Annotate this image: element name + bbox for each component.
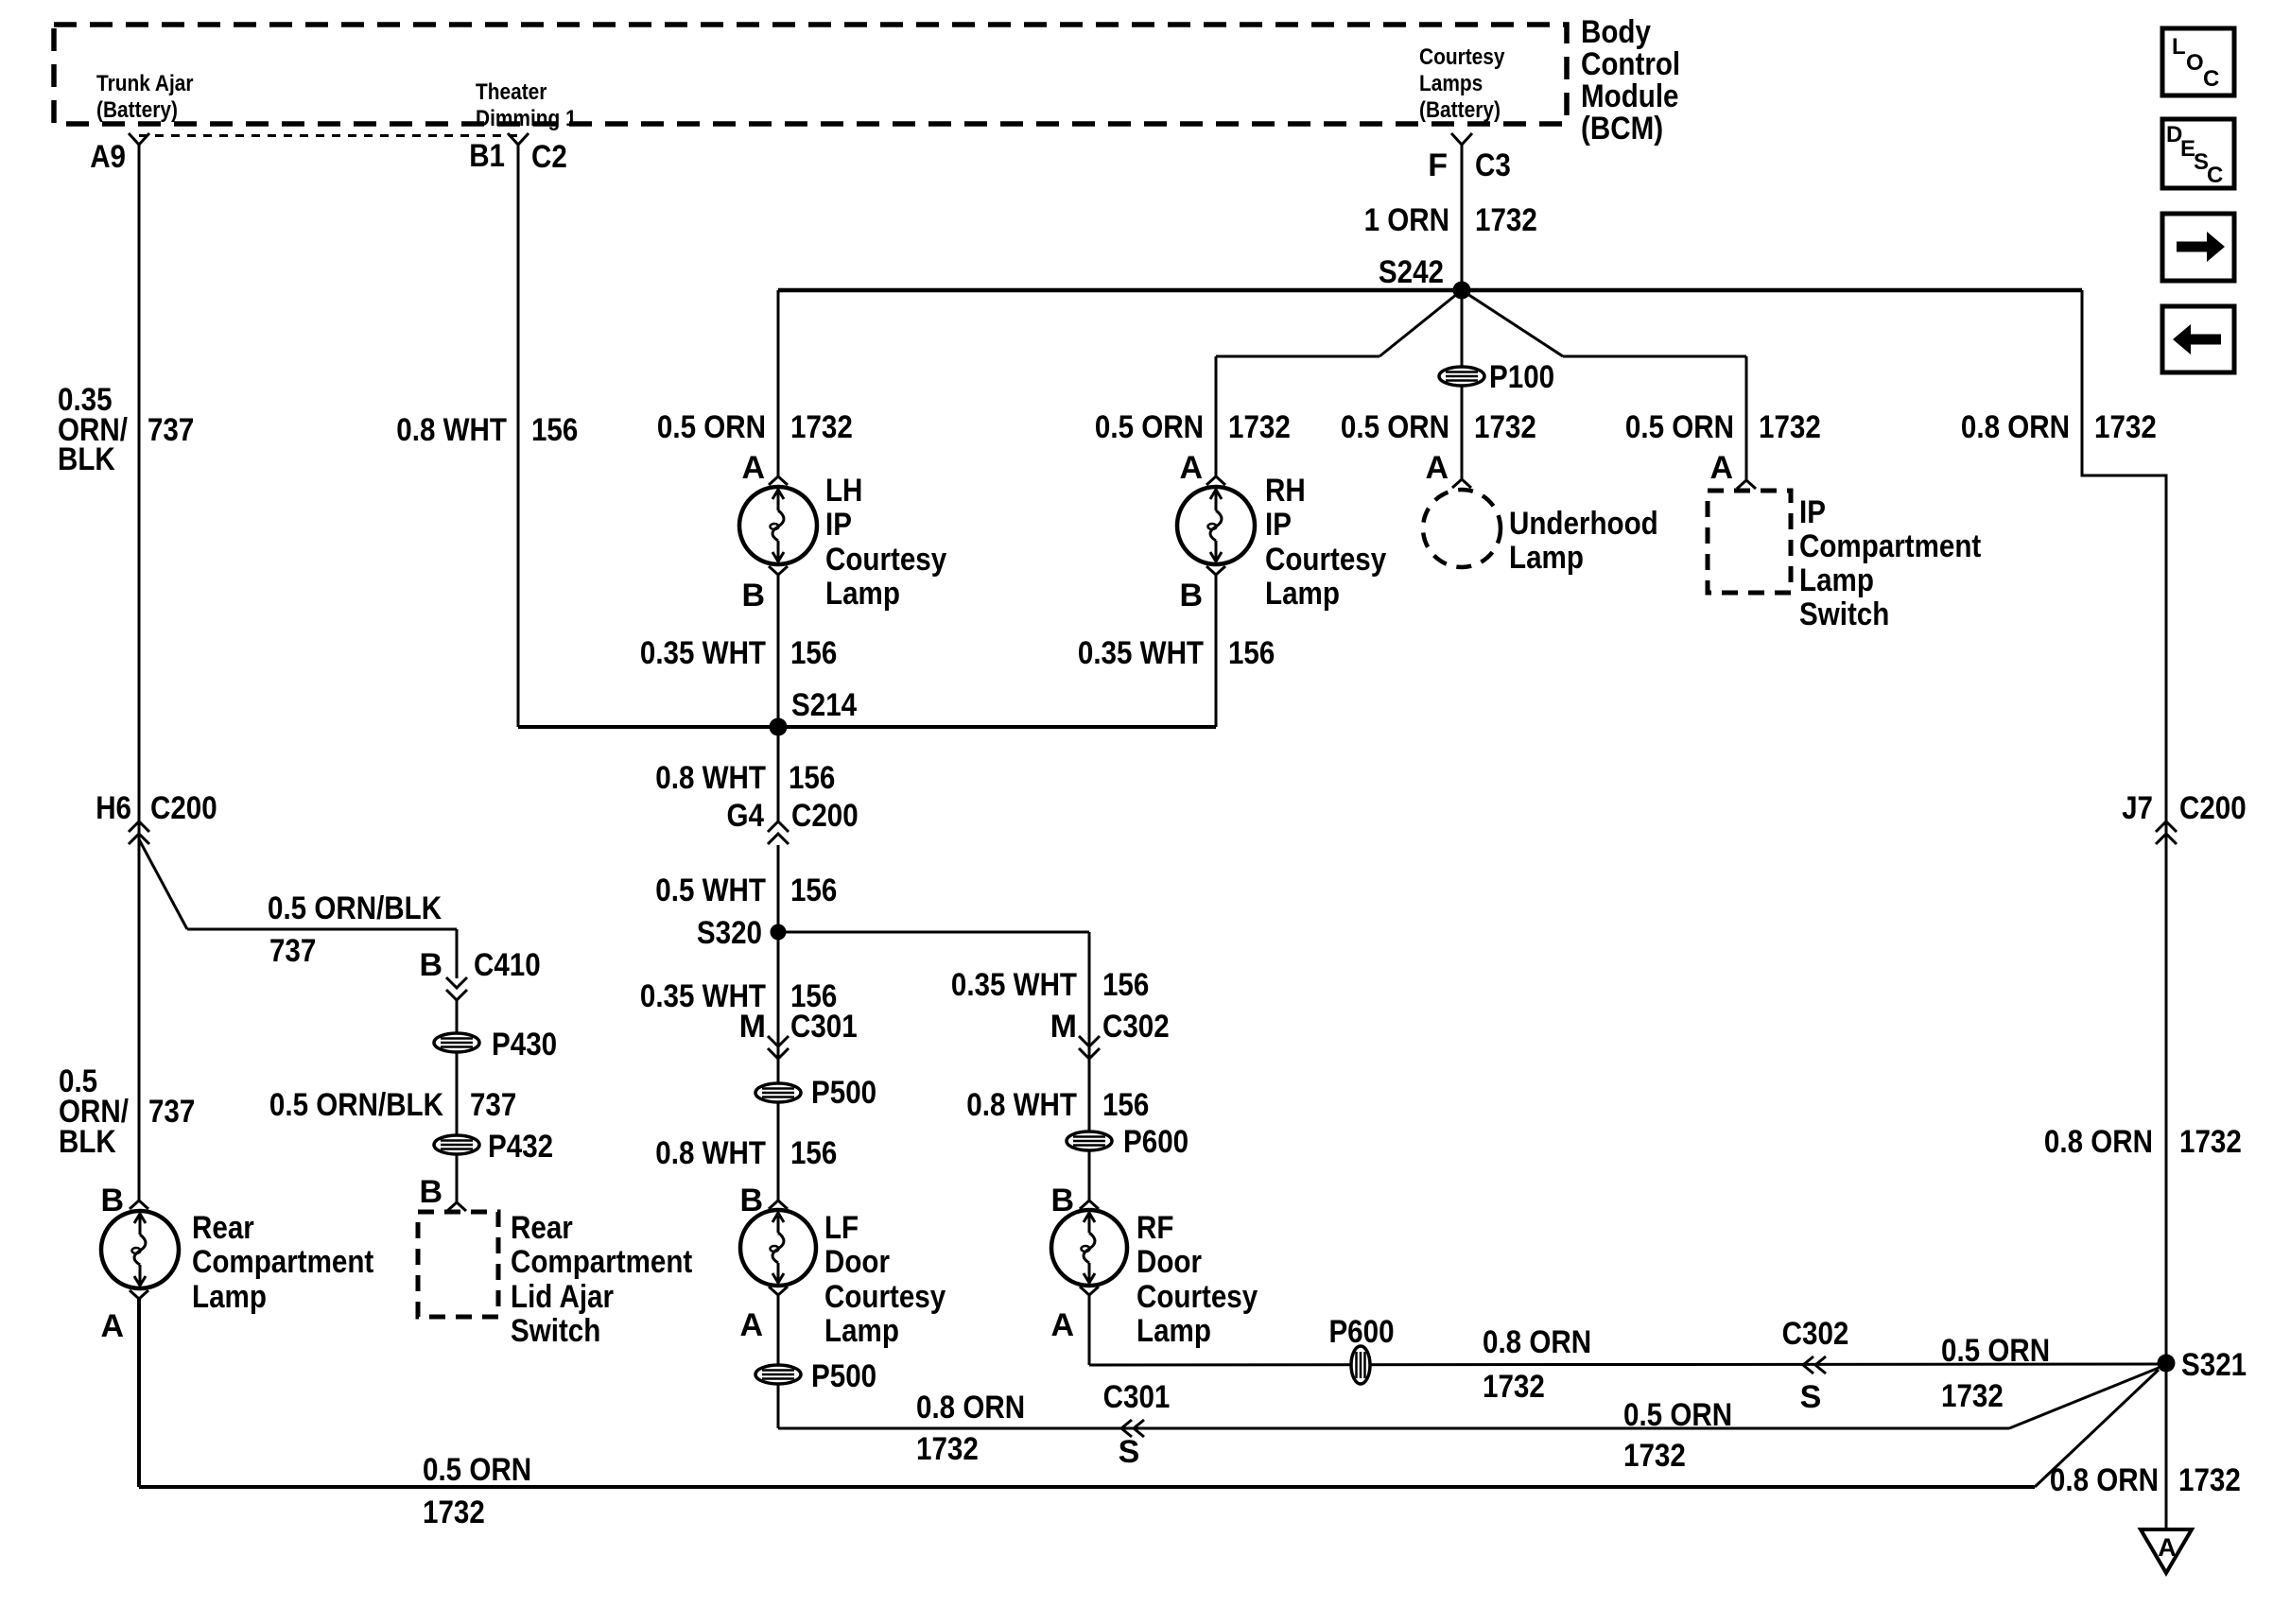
svg-text:0.8 ORN: 0.8 ORN — [1483, 1324, 1591, 1360]
splice S321 — [2158, 1347, 2247, 1383]
svg-text:0.5 ORN/BLK: 0.5 ORN/BLK — [268, 890, 442, 926]
rear compartment lamp pin B — [100, 1183, 148, 1218]
svg-text:S321: S321 — [2181, 1347, 2247, 1383]
BCM pin A9 terminal — [90, 133, 149, 175]
wire label 0.8 WHT 156 (LF) — [655, 1135, 837, 1171]
rear compartment lid ajar switch pin B — [419, 1174, 466, 1211]
wire diagonal S242 to RH branch — [1379, 290, 1462, 356]
svg-text:1732: 1732 — [1228, 409, 1291, 445]
in-line connector C301 S (pass through) — [1103, 1379, 1171, 1470]
rear compartment lamp pin A — [100, 1290, 148, 1344]
wire 0.8 ORN RF run to S321 — [1089, 1364, 2166, 1365]
grommet P500 — [755, 1075, 876, 1111]
svg-text:(Battery): (Battery) — [96, 97, 178, 123]
svg-text:0.8 ORN: 0.8 ORN — [2050, 1462, 2159, 1498]
wire branch diagonal to 737 branch — [139, 839, 187, 929]
wire label 0.35 WHT 156 (LF) — [640, 978, 837, 1014]
svg-text:B: B — [419, 947, 442, 983]
wire 0.5 ORN/BLK 737 branch horizontal — [187, 928, 457, 931]
svg-text:C200: C200 — [150, 790, 217, 826]
wire label 0.8 ORN 1732 (right middle) — [2044, 1124, 2242, 1160]
svg-text:O: O — [2186, 50, 2204, 76]
RF door courtesy lamp pin A — [1050, 1287, 1099, 1343]
svg-text:Body: Body — [1581, 14, 1651, 50]
underhood lamp label — [1509, 506, 1658, 576]
svg-text:0.5 WHT: 0.5 WHT — [655, 872, 766, 908]
svg-text:Lamps: Lamps — [1419, 71, 1483, 96]
svg-text:Door: Door — [824, 1244, 890, 1280]
grommet P600 — [1067, 1124, 1189, 1160]
svg-text:Courtesy: Courtesy — [1419, 44, 1505, 70]
svg-text:0.35 WHT: 0.35 WHT — [951, 967, 1077, 1003]
svg-text:C302: C302 — [1102, 1009, 1170, 1045]
grommet P100 — [1439, 359, 1554, 395]
svg-text:S: S — [1800, 1379, 1822, 1415]
svg-text:0.35 WHT: 0.35 WHT — [1078, 635, 1204, 671]
svg-text:Rear: Rear — [511, 1210, 573, 1246]
svg-text:G4: G4 — [727, 798, 765, 834]
wire S320 branch horizontal — [778, 931, 1089, 934]
svg-text:A: A — [741, 450, 765, 486]
icon box left arrow — [2162, 306, 2234, 372]
svg-text:1732: 1732 — [1474, 409, 1536, 445]
wire label 0.35 WHT 156 (RF) — [951, 967, 1149, 1003]
svg-text:0.5 ORN: 0.5 ORN — [657, 409, 766, 445]
svg-text:Compartment: Compartment — [511, 1244, 692, 1280]
svg-text:BLK: BLK — [59, 1124, 116, 1160]
svg-text:P432: P432 — [488, 1129, 553, 1165]
wire label 0.5 ORN/BLK 737 — [268, 890, 442, 969]
wire diagonal LF run to splice S321 — [2009, 1368, 2159, 1428]
underhood lamp pin A — [1425, 450, 1471, 488]
wire 0.5 ORN 1732 to RH lamp — [1215, 356, 1218, 477]
svg-text:0.8 ORN: 0.8 ORN — [1961, 409, 2070, 445]
splice S320 — [697, 915, 787, 951]
svg-text:0.5 ORN: 0.5 ORN — [1341, 409, 1449, 445]
wire diagonal S242 to IP switch branch — [1462, 290, 1563, 356]
wire 737 branch vertical to C410 — [456, 929, 459, 978]
svg-text:0.8 ORN: 0.8 ORN — [2044, 1124, 2153, 1160]
RF door courtesy lamp pin B — [1050, 1183, 1099, 1218]
wire 1732 from rear lamp A down — [137, 1298, 141, 1487]
wire from LF lamp A to bottom run — [777, 1295, 780, 1428]
svg-text:156: 156 — [790, 635, 837, 671]
IP compartment lamp switch label — [1799, 494, 1981, 632]
wire IP switch branch horizontal — [1563, 355, 1746, 358]
svg-text:BLK: BLK — [58, 441, 115, 477]
wire label 0.8 WHT 156 (below S214) — [655, 760, 835, 796]
wire label 0.8 WHT 156 — [396, 412, 578, 448]
BCM name label — [1581, 14, 1680, 147]
svg-text:S214: S214 — [791, 687, 857, 723]
in-line connector C200 pin J7 — [2122, 790, 2247, 844]
svg-text:0.8 WHT: 0.8 WHT — [966, 1087, 1077, 1123]
svg-text:156: 156 — [531, 412, 578, 448]
wire 0.8 ORN bottom run from LF lamp — [778, 1427, 2009, 1430]
wire label 0.5 ORN/BLK 737 (second) — [269, 1087, 516, 1123]
svg-text:Door: Door — [1136, 1244, 1202, 1280]
wire label 0.5 ORN 1732 (bottom run) — [423, 1452, 531, 1530]
svg-text:Lamp: Lamp — [1799, 562, 1874, 598]
BCM pin function label: Theater Dimming 1 — [476, 79, 577, 131]
wire label 0.5 ORN 1732 (RF run right) — [1941, 1333, 2050, 1414]
svg-text:IP: IP — [825, 507, 852, 543]
wire label 0.8 ORN 1732 (RF run) — [1483, 1324, 1591, 1405]
svg-text:Courtesy: Courtesy — [1265, 542, 1386, 578]
svg-text:C2: C2 — [531, 139, 567, 175]
svg-text:Lamp: Lamp — [192, 1279, 267, 1315]
LF door courtesy lamp — [740, 1210, 816, 1286]
svg-text:S320: S320 — [697, 915, 762, 951]
RH IP courtesy lamp label — [1265, 473, 1386, 612]
svg-text:B: B — [419, 1174, 442, 1210]
svg-text:Lamp: Lamp — [1265, 576, 1340, 612]
wire 0.5 ORN 1732 to IP compartment lamp switch — [1745, 356, 1748, 481]
BCM pin B1 / connector C2 label — [469, 133, 567, 175]
wire 0.35 WHT 156 from RH lamp B to S214 — [1215, 574, 1218, 727]
svg-text:LF: LF — [824, 1210, 859, 1246]
icon box LOC — [2162, 28, 2234, 95]
svg-text:J7: J7 — [2122, 790, 2153, 826]
svg-text:Underhood: Underhood — [1509, 506, 1658, 542]
svg-text:Theater: Theater — [476, 79, 547, 105]
svg-text:C: C — [2207, 163, 2223, 188]
svg-text:B: B — [100, 1183, 124, 1218]
svg-text:737: 737 — [147, 412, 194, 448]
svg-text:0.5 ORN: 0.5 ORN — [423, 1452, 531, 1488]
wire from C410 to lid ajar switch — [456, 1000, 459, 1202]
wire label 0.5 ORN 1732 (RH) — [1095, 409, 1291, 445]
svg-text:0.5 ORN: 0.5 ORN — [1941, 1333, 2050, 1369]
rear compartment lid ajar switch (dashed box) — [418, 1212, 498, 1317]
grommet P430 — [434, 1027, 557, 1063]
svg-text:(BCM): (BCM) — [1581, 111, 1663, 147]
in-line connector C301 pin M — [739, 1009, 858, 1059]
icon box right arrow — [2162, 214, 2234, 281]
svg-text:P600: P600 — [1123, 1124, 1189, 1160]
LH IP courtesy lamp pin B — [741, 566, 788, 613]
svg-text:Lamp: Lamp — [824, 1313, 899, 1349]
in-line connector C302 pin M — [1050, 1009, 1170, 1059]
svg-text:Switch: Switch — [1799, 596, 1889, 632]
svg-text:P100: P100 — [1489, 359, 1554, 395]
svg-text:Compartment: Compartment — [192, 1244, 373, 1280]
in-line connector C302 S (pass through) — [1782, 1316, 1849, 1415]
svg-text:Lamp: Lamp — [1136, 1313, 1211, 1349]
svg-text:A: A — [100, 1308, 124, 1344]
svg-text:F: F — [1428, 147, 1448, 183]
wire 0.35 WHT 156 from S320 down — [777, 932, 780, 1201]
svg-text:156: 156 — [1102, 1087, 1149, 1123]
wire label 0.5 ORN 1732 (underhood) — [1341, 409, 1536, 445]
wire label 1 ORN 1732 — [1364, 202, 1537, 238]
grommet P432 — [434, 1129, 553, 1165]
wire main 1732 horizontal run — [778, 288, 2082, 293]
svg-text:0.5 ORN: 0.5 ORN — [1623, 1397, 1732, 1433]
in-line connector C200 pin G4 — [727, 798, 859, 844]
svg-text:737: 737 — [148, 1094, 195, 1130]
BCM pin F / connector C3 label — [1428, 133, 1511, 183]
svg-text:RH: RH — [1265, 473, 1306, 509]
LH IP courtesy lamp — [739, 487, 817, 564]
svg-text:1732: 1732 — [1941, 1378, 2004, 1414]
svg-text:B1: B1 — [469, 138, 505, 174]
wire label 0.5 ORN 1732 (LF run right) — [1623, 1397, 1732, 1474]
Body Control Module (BCM) dashed outline — [54, 25, 1567, 124]
svg-text:1732: 1732 — [2179, 1124, 2242, 1160]
svg-text:Courtesy: Courtesy — [824, 1279, 946, 1315]
wire label 0.8 ORN 1732 (right top) — [1961, 409, 2157, 445]
RF door courtesy lamp label — [1136, 1210, 1258, 1349]
svg-text:S242: S242 — [1379, 254, 1444, 290]
wire from RF lamp A to RF run — [1088, 1295, 1091, 1365]
svg-text:0.5 ORN: 0.5 ORN — [1625, 409, 1734, 445]
wire label 0.8 WHT 156 (RF) — [966, 1087, 1149, 1123]
icon box DESC — [2162, 119, 2234, 188]
BCM pin function label: Trunk Ajar (Battery) — [96, 71, 194, 123]
svg-text:P500: P500 — [811, 1358, 876, 1394]
svg-text:1732: 1732 — [790, 409, 853, 445]
svg-text:B: B — [1179, 578, 1203, 613]
svg-text:M: M — [739, 1009, 766, 1045]
IP compartment lamp switch pin A — [1709, 450, 1756, 489]
wire label 0.8 ORN 1732 (LF run) — [916, 1390, 1025, 1467]
wire RH branch horizontal — [1216, 355, 1379, 358]
svg-text:(Battery): (Battery) — [1419, 97, 1501, 123]
wire 1732 from BCM F down to S242 — [1461, 145, 1464, 290]
svg-text:156: 156 — [1228, 635, 1275, 671]
svg-text:A: A — [1179, 450, 1203, 486]
svg-text:C301: C301 — [1103, 1379, 1171, 1415]
wire 0.35 WHT 156 from S320 branch down — [1088, 932, 1091, 1201]
svg-text:A: A — [1709, 450, 1733, 486]
svg-text:A9: A9 — [90, 139, 126, 175]
RH IP courtesy lamp — [1177, 487, 1255, 564]
svg-text:156: 156 — [790, 1135, 837, 1171]
LF door courtesy lamp label — [824, 1210, 946, 1349]
svg-text:Lid Ajar: Lid Ajar — [511, 1279, 614, 1315]
svg-text:Switch: Switch — [511, 1313, 600, 1349]
svg-text:H6: H6 — [95, 790, 131, 826]
wire label 0.35 WHT 156 (RH) — [1078, 635, 1275, 671]
underhood lamp (dashed circle) — [1423, 490, 1501, 567]
svg-text:Courtesy: Courtesy — [1136, 1279, 1258, 1315]
svg-text:1732: 1732 — [2094, 409, 2157, 445]
svg-text:1 ORN: 1 ORN — [1364, 202, 1449, 238]
wire diagonal from bottom run to splice S321 — [2035, 1370, 2159, 1487]
svg-text:156: 156 — [789, 760, 835, 796]
BCM pin function label: Courtesy Lamps (Battery) — [1419, 44, 1505, 123]
wire label 0.5 ORN 1732 (IP switch) — [1625, 409, 1821, 445]
wire label 0.5 ORN 1732 (LH) — [657, 409, 853, 445]
wire label 0.35 ORN/BLK 737 — [58, 382, 194, 477]
off-page reference arrow A — [2141, 1529, 2192, 1573]
svg-text:Compartment: Compartment — [1799, 528, 1981, 564]
svg-text:A: A — [1050, 1307, 1074, 1343]
svg-text:A: A — [2158, 1533, 2177, 1562]
svg-text:0.35 WHT: 0.35 WHT — [640, 635, 766, 671]
svg-text:156: 156 — [1102, 967, 1149, 1003]
rear compartment lid ajar switch label — [511, 1210, 692, 1349]
splice S242 — [1379, 254, 1471, 300]
svg-text:Courtesy: Courtesy — [825, 542, 946, 578]
svg-text:L: L — [2172, 34, 2186, 60]
connector boundary dashed line between pins A9 and B1 — [139, 134, 518, 137]
svg-text:737: 737 — [269, 933, 316, 969]
grommet P600 (on RF run) — [1328, 1314, 1394, 1384]
in-line connector C410 pin B — [419, 947, 540, 1000]
svg-text:1732: 1732 — [1759, 409, 1821, 445]
wire S214 horizontal run — [518, 725, 1216, 729]
wire 0.5 WHT 156 from C200 to S320 — [777, 845, 780, 932]
RH IP courtesy lamp pin B — [1179, 566, 1225, 613]
svg-text:P600: P600 — [1328, 1314, 1394, 1350]
svg-text:A: A — [739, 1307, 763, 1343]
wire 156 from BCM B1 down to S214 — [517, 145, 520, 727]
svg-text:Dimming 1: Dimming 1 — [476, 106, 577, 131]
svg-text:1732: 1732 — [1475, 202, 1537, 238]
svg-text:P500: P500 — [811, 1075, 876, 1111]
wire 0.35 WHT 156 from LH lamp B to S214 — [777, 574, 780, 727]
svg-text:A: A — [1425, 450, 1449, 486]
svg-text:1732: 1732 — [2178, 1462, 2241, 1498]
LF door courtesy lamp pin A — [739, 1287, 788, 1343]
svg-text:Trunk Ajar: Trunk Ajar — [96, 71, 194, 96]
svg-text:C301: C301 — [790, 1009, 858, 1045]
wire 737 from BCM A9 down left side — [138, 145, 141, 1201]
svg-text:C200: C200 — [791, 798, 859, 834]
wire 0.5 ORN 1732 bottom run — [139, 1485, 2035, 1489]
svg-text:P430: P430 — [492, 1027, 557, 1063]
wire 0.8 WHT 156 from S214 down — [777, 727, 780, 821]
svg-text:0.5 ORN: 0.5 ORN — [1095, 409, 1204, 445]
rear compartment lamp label — [192, 1210, 373, 1315]
svg-text:Rear: Rear — [192, 1210, 254, 1246]
svg-text:0.8 WHT: 0.8 WHT — [655, 760, 766, 796]
RH IP courtesy lamp pin A — [1179, 450, 1225, 486]
LH IP courtesy lamp pin A — [741, 450, 788, 486]
svg-text:S: S — [1119, 1434, 1140, 1470]
svg-text:C: C — [2203, 66, 2219, 92]
svg-text:1732: 1732 — [1483, 1369, 1545, 1405]
svg-text:C3: C3 — [1475, 147, 1511, 183]
svg-text:Lamp: Lamp — [825, 576, 900, 612]
svg-text:737: 737 — [470, 1087, 516, 1123]
svg-text:Lamp: Lamp — [1509, 540, 1584, 576]
rear compartment lamp — [101, 1211, 179, 1288]
in-line connector C200 pin H6 — [95, 790, 217, 844]
svg-text:0.8 ORN: 0.8 ORN — [916, 1390, 1025, 1425]
svg-text:C302: C302 — [1782, 1316, 1849, 1352]
LF door courtesy lamp pin B — [739, 1183, 788, 1218]
RF door courtesy lamp — [1051, 1210, 1127, 1286]
svg-text:IP: IP — [1265, 507, 1292, 543]
wire 0.8 ORN 1732 right side down — [2082, 290, 2166, 1529]
grommet P500 (lower) — [755, 1358, 876, 1394]
svg-text:0.8 WHT: 0.8 WHT — [396, 412, 507, 448]
svg-text:C200: C200 — [2179, 790, 2247, 826]
wire 0.5 ORN 1732 from S242 to underhood lamp — [1461, 290, 1464, 480]
svg-text:B: B — [741, 578, 765, 613]
IP compartment lamp switch (dashed box) — [1708, 491, 1791, 593]
splice S214 — [770, 687, 858, 736]
wire label 0.5 ORN/BLK 737 (left column lower) — [59, 1063, 195, 1160]
wire label 0.35 WHT 156 (LH) — [640, 635, 837, 671]
svg-text:0.8 WHT: 0.8 WHT — [655, 1135, 766, 1171]
svg-text:Control: Control — [1581, 46, 1680, 82]
svg-text:LH: LH — [825, 473, 862, 509]
svg-text:1732: 1732 — [916, 1431, 979, 1467]
LH IP courtesy lamp label — [825, 473, 946, 612]
wire label 0.8 ORN 1732 (bottom right) — [2050, 1462, 2241, 1498]
svg-text:IP: IP — [1799, 494, 1826, 530]
svg-text:1732: 1732 — [1623, 1438, 1686, 1474]
svg-text:RF: RF — [1136, 1210, 1173, 1246]
wire label 0.5 WHT 156 — [655, 872, 837, 908]
svg-text:156: 156 — [790, 872, 837, 908]
svg-text:1732: 1732 — [423, 1494, 485, 1530]
svg-text:0.5 ORN/BLK: 0.5 ORN/BLK — [269, 1087, 443, 1123]
svg-text:C410: C410 — [474, 947, 541, 983]
svg-text:Module: Module — [1581, 78, 1679, 114]
svg-text:M: M — [1050, 1009, 1077, 1045]
wire 0.5 ORN 1732 to LH lamp — [777, 290, 780, 477]
